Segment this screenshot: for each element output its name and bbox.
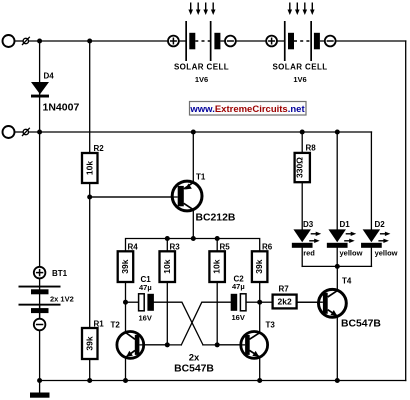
svg-text:R5: R5: [220, 242, 231, 251]
wire R3 column: [166, 239, 168, 345]
solar cell 1 light arrows: [188, 3, 215, 16]
wire T2 base: [140, 344, 182, 346]
svg-text:R3: R3: [170, 242, 181, 251]
transistor T3 BC547B (NPN): [217, 321, 275, 359]
svg-text:2k2: 2k2: [278, 297, 292, 307]
wire top rail y=41: [28, 40, 168, 42]
svg-text:10k: 10k: [212, 259, 222, 273]
wire LED bus y=266.4: [302, 265, 371, 267]
svg-text:www.ExtremeCircuits.net: www.ExtremeCircuits.net: [189, 104, 305, 115]
wire R8/D3 column: [301, 132, 303, 230]
node T2 base / R3: [165, 342, 170, 347]
node R2/R1 divider / T1 base: [87, 195, 92, 200]
svg-text:yellow: yellow: [375, 248, 398, 257]
resistor R2 10k: [82, 144, 104, 183]
node flip-flop rail / T1 collector: [191, 236, 196, 241]
svg-text:1V6: 1V6: [195, 75, 208, 84]
LED D1 yellow: [327, 220, 363, 257]
wire solar cell2 to right edge: [336, 40, 406, 42]
label 2x BC547B: [174, 353, 214, 375]
svg-text:39k: 39k: [254, 259, 264, 273]
svg-text:SOLAR CELL: SOLAR CELL: [174, 63, 229, 72]
wire R5 column: [216, 239, 218, 345]
wire right edge vertical: [405, 41, 407, 381]
node battery rail / T1 emitter: [191, 130, 196, 135]
svg-text:R1: R1: [94, 320, 105, 329]
svg-text:10k: 10k: [162, 259, 172, 273]
svg-text:T1: T1: [196, 173, 206, 182]
transistor T1 BC212B (PNP): [90, 173, 236, 224]
terminal plug top: [3, 35, 30, 47]
svg-text:D4: D4: [44, 72, 55, 81]
node T3 base / R5: [215, 342, 220, 347]
wire battery rail y=132: [28, 131, 372, 133]
wire C1 left lead: [126, 301, 139, 303]
solar cell 1: [168, 21, 236, 84]
svg-text:47µ: 47µ: [232, 282, 245, 291]
wire R7 left lead: [260, 301, 273, 303]
node bottom rail / T2 emitter: [123, 378, 128, 383]
wire D2 cathode to LED bus: [370, 248, 372, 267]
svg-text:16V: 16V: [232, 313, 245, 322]
node T2 collector / C1: [123, 300, 128, 305]
wire T3 base: [203, 344, 245, 346]
solar cell 2 light arrows: [288, 3, 315, 16]
resistor R4 39k: [118, 242, 139, 282]
node bottom rail / T3 emitter: [257, 378, 262, 383]
node LED bus / T4 collector: [335, 264, 340, 269]
resistor R8 330ohm: [294, 143, 316, 182]
wire T2 emitter: [125, 345, 127, 381]
svg-text:D2: D2: [375, 220, 386, 229]
svg-text:R8: R8: [306, 143, 317, 152]
terminal plug bottom: [3, 126, 30, 138]
svg-text:39k: 39k: [84, 336, 94, 350]
wire T1 collector vertical: [192, 196, 194, 239]
svg-text:R7: R7: [279, 285, 290, 294]
wire D3 cathode to LED bus: [301, 248, 303, 267]
svg-text:10k: 10k: [84, 161, 94, 175]
capacitor C2 47u: [231, 275, 246, 323]
svg-text:R2: R2: [94, 144, 105, 153]
wire C2 right lead: [246, 301, 260, 303]
wire T2 collector: [125, 302, 127, 345]
node battery rail / R8: [300, 130, 305, 135]
svg-text:T3: T3: [266, 321, 276, 330]
node battery rail / D1: [335, 130, 340, 135]
wire T3 emitter: [259, 345, 261, 381]
resistor R3 10k: [160, 242, 181, 282]
node bottom rail / ground: [37, 378, 42, 383]
resistor R5 10k: [209, 242, 230, 282]
svg-text:BC547B: BC547B: [174, 364, 214, 375]
transistor T4 BC547B (NPN): [297, 277, 382, 330]
svg-text:1V6: 1V6: [293, 75, 306, 84]
node top rail / D4: [37, 39, 42, 44]
LED D2 yellow: [361, 220, 398, 257]
wire D2 anode drop: [370, 132, 372, 230]
svg-text:yellow: yellow: [340, 248, 363, 257]
solar cell 2: [266, 21, 335, 84]
node flip-flop rail / R3: [165, 236, 170, 241]
battery BT1: [19, 267, 74, 331]
wire bottom rail y=380.5: [40, 380, 406, 382]
wire T1 emitter vertical: [192, 132, 194, 196]
svg-text:2x: 2x: [189, 353, 200, 364]
svg-text:BC212B: BC212B: [196, 213, 236, 224]
resistor R7 2k2: [273, 285, 297, 309]
wire R2/R1 column: [89, 41, 91, 381]
wire between solar cells: [236, 40, 266, 42]
ground: [30, 393, 50, 398]
wire D4/battery column: [39, 41, 41, 381]
svg-text:T4: T4: [342, 277, 352, 286]
capacitor C1 47u: [139, 275, 154, 323]
wire C1 right lead to coupling: [154, 302, 203, 345]
wire R7 right lead / T4 base: [297, 301, 324, 303]
wire D1 cathode to LED bus: [336, 248, 338, 267]
wire C2 left lead to coupling: [181, 302, 230, 345]
node bottom rail / R1: [87, 378, 92, 383]
svg-text:red: red: [303, 248, 315, 257]
svg-text:1N4007: 1N4007: [43, 102, 80, 114]
node flip-flop rail / R5: [215, 236, 220, 241]
wire T4 emitter: [336, 303, 338, 381]
resistor R1 39k: [82, 320, 104, 360]
www.ExtremeCircuits.net banner: [189, 102, 306, 116]
wire flip-flop rail y=238.5: [126, 239, 260, 303]
wire T3 collector: [259, 302, 261, 345]
resistor R6 39k: [252, 243, 273, 283]
svg-text:39k: 39k: [120, 259, 130, 273]
transistor T2 BC547B (NPN mirrored): [111, 321, 168, 359]
svg-text:330Ω: 330Ω: [294, 157, 304, 178]
svg-text:SOLAR CELL: SOLAR CELL: [272, 63, 327, 72]
wire T4 collector: [336, 266, 338, 303]
svg-text:R6: R6: [262, 243, 273, 252]
svg-text:BT1: BT1: [52, 269, 68, 278]
svg-text:D1: D1: [340, 220, 351, 229]
wire ground stub: [39, 381, 41, 393]
svg-text:16V: 16V: [139, 314, 152, 323]
svg-text:2x 1V2: 2x 1V2: [50, 295, 74, 304]
wire T1 base: [90, 196, 178, 198]
node battery rail / D4: [37, 130, 42, 135]
wire D1 anode drop: [336, 132, 338, 230]
diode D4: [31, 72, 79, 114]
svg-text:D3: D3: [303, 220, 314, 229]
svg-text:47µ: 47µ: [139, 283, 152, 292]
LED D3 red: [292, 220, 321, 257]
svg-text:R4: R4: [128, 242, 139, 251]
svg-text:T2: T2: [111, 321, 121, 330]
svg-text:BC547B: BC547B: [341, 319, 381, 330]
node top rail / R2: [87, 39, 92, 44]
node bottom rail / T4 emitter: [335, 378, 340, 383]
node T3 collector / C2 / R7: [257, 300, 262, 305]
